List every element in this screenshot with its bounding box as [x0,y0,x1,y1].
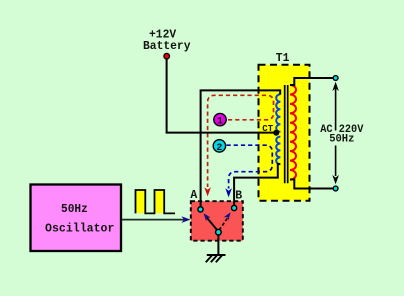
svg-text:50Hz: 50Hz [329,133,354,145]
svg-text:2: 2 [216,143,222,154]
svg-text:CT: CT [262,123,273,134]
svg-text:1: 1 [217,117,223,128]
svg-text:A: A [190,189,197,202]
svg-text:50Hz: 50Hz [61,203,88,216]
svg-text:Battery: Battery [143,40,191,53]
svg-text:B: B [235,190,242,203]
svg-text:T1: T1 [276,52,290,65]
svg-text:Oscillator: Oscillator [45,223,114,236]
